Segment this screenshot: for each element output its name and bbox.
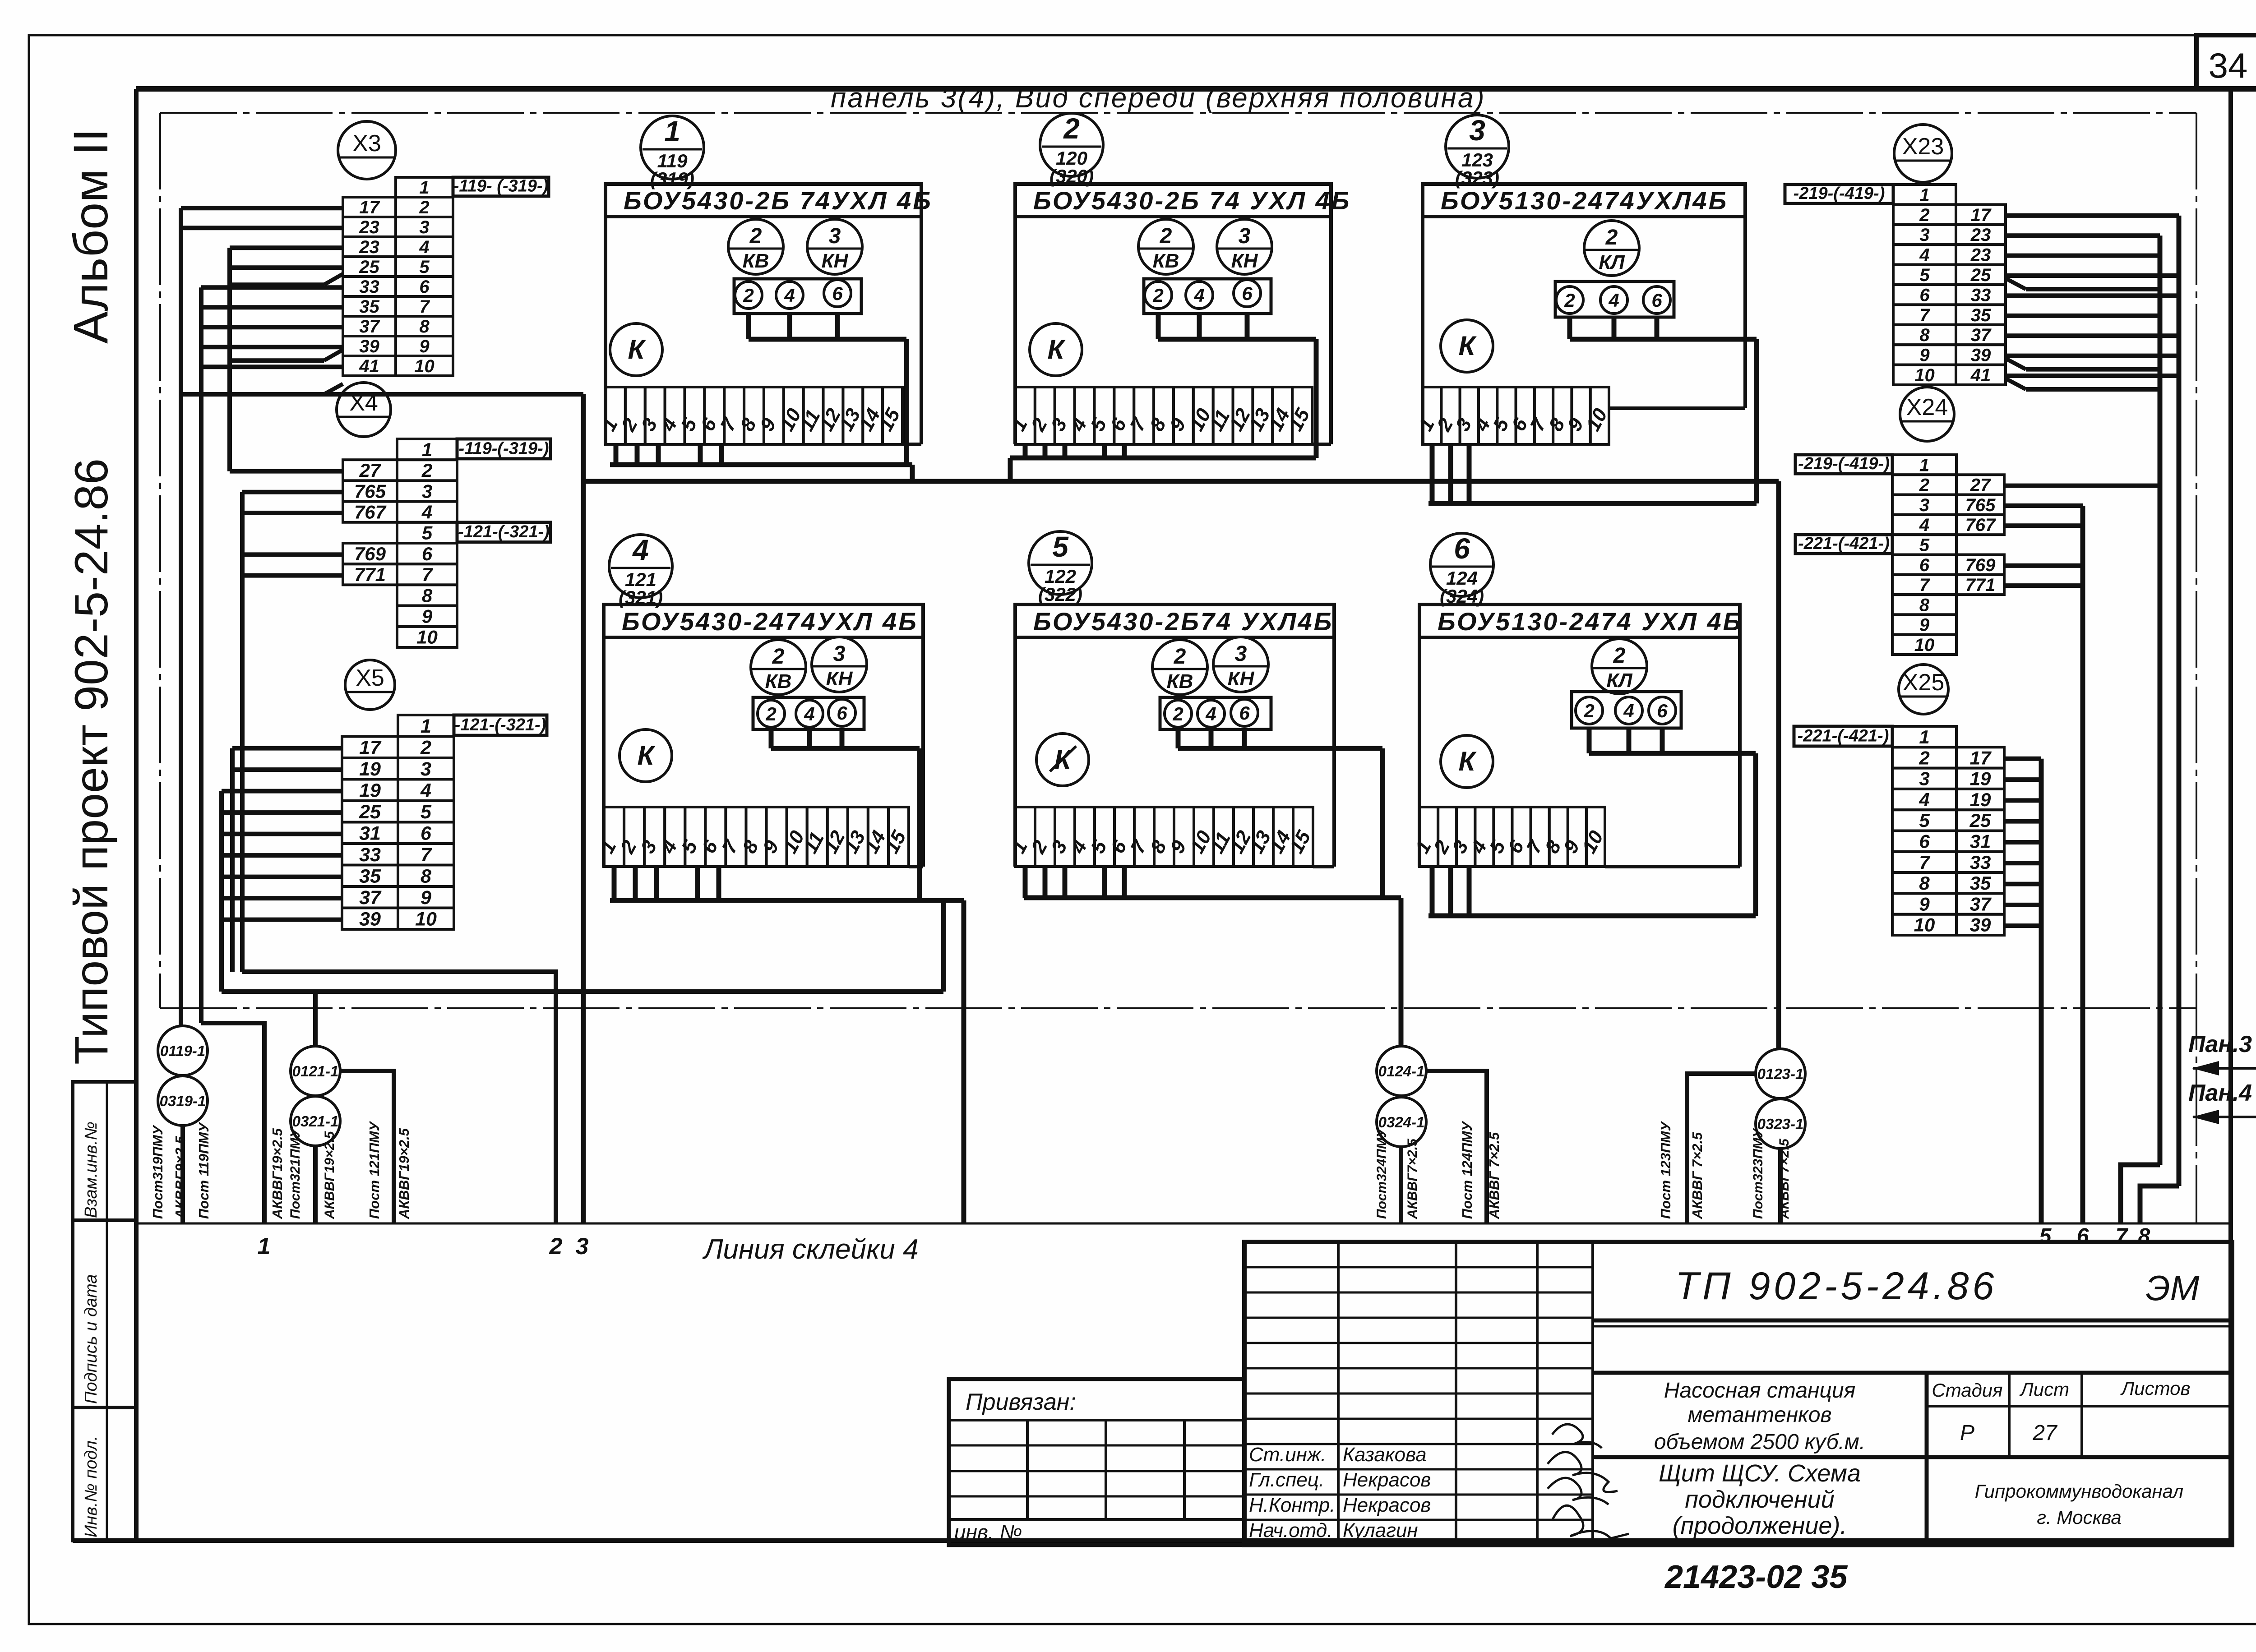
cable labels group 2: [288, 1121, 412, 1219]
terminal group 2-4-6 of block 5: [1160, 697, 1271, 729]
svg-text:2: 2: [1152, 285, 1163, 306]
svg-text:X24: X24: [1906, 394, 1948, 420]
svg-text:6: 6: [1919, 831, 1930, 852]
svg-text:767: 767: [354, 501, 387, 522]
svg-text:АКВВГ19×2.5: АКВВГ19×2.5: [322, 1131, 337, 1219]
svg-text:8: 8: [1919, 872, 1930, 894]
svg-text:(продолжение).: (продолжение).: [1673, 1512, 1847, 1539]
position circle 6: [1430, 532, 1493, 607]
contact circle 3/КН of block 4: [812, 637, 867, 692]
terminal block X4 circle: [337, 383, 391, 437]
svg-text:инв. №: инв. №: [954, 1520, 1022, 1544]
svg-text:-119- (-319-): -119- (-319-): [453, 177, 548, 196]
svg-text:4: 4: [1919, 789, 1929, 810]
svg-text:Некрасов: Некрасов: [1343, 1469, 1431, 1491]
svg-text:767: 767: [1965, 515, 1996, 535]
svg-text:33: 33: [1970, 852, 1991, 873]
relay block 6: БОУ5130-2474 УХЛ 4Б: [1419, 605, 1743, 867]
svg-text:21423-02 35: 21423-02 35: [1664, 1559, 1848, 1595]
svg-text:-221-(-421-): -221-(-421-): [1798, 534, 1890, 553]
svg-text:31: 31: [359, 822, 381, 844]
svg-text:7: 7: [422, 564, 433, 585]
svg-text:6: 6: [1239, 702, 1250, 724]
cable labels group 4: [1658, 1121, 1792, 1219]
svg-text:Пост321ПМУ: Пост321ПМУ: [288, 1127, 303, 1219]
svg-text:1: 1: [419, 178, 429, 198]
svg-text:4: 4: [804, 703, 814, 724]
svg-text:Пост324ПМУ: Пост324ПМУ: [1374, 1127, 1389, 1219]
contact circle 3/КН of block 1: [807, 219, 862, 274]
svg-text:Щит ЩСУ. Схема: Щит ЩСУ. Схема: [1659, 1460, 1861, 1487]
cable line through 0121-1 / 0321-1: [315, 1071, 394, 1223]
svg-text:5: 5: [421, 801, 432, 823]
wires: block2 collector bus and step at 2239: [1010, 458, 1316, 481]
svg-text:АКВВГ7×2.5: АКВВГ7×2.5: [1777, 1138, 1792, 1219]
dash-dot panel outline: [160, 113, 2196, 1223]
svg-text:17: 17: [359, 737, 382, 758]
svg-text:10: 10: [416, 627, 438, 648]
svg-text:2: 2: [772, 645, 785, 669]
svg-text:35: 35: [359, 865, 381, 887]
svg-text:3: 3: [1235, 642, 1247, 666]
privyazan box: [949, 1379, 1244, 1545]
panel reference Пан.3: [2188, 1031, 2256, 1075]
svg-text:КЛ: КЛ: [1606, 669, 1632, 692]
relay contactor K of block 2: [1030, 323, 1082, 376]
svg-text:АКВВГ 7×2.5: АКВВГ 7×2.5: [1689, 1132, 1705, 1219]
svg-text:2: 2: [1613, 644, 1626, 668]
svg-text:1: 1: [1919, 455, 1929, 475]
signature rows: [1249, 1444, 1431, 1541]
svg-text:КН: КН: [1228, 668, 1255, 690]
terminal block X25 table: [1794, 726, 2004, 936]
svg-text:АКВВГ 7×2.5: АКВВГ 7×2.5: [1486, 1132, 1502, 1219]
wire bundle: X23 rows to right verticals: [2006, 216, 2179, 1223]
contact circle 2/КЛ of block 3: [1584, 221, 1639, 276]
svg-text:3: 3: [419, 217, 429, 237]
svg-text:-121-(-321-): -121-(-321-): [458, 522, 550, 541]
contact circle 3/КН of block 5: [1213, 637, 1268, 692]
svg-text:4: 4: [1205, 703, 1216, 724]
svg-text:2: 2: [1564, 290, 1575, 311]
contact circle 2/КВ of block 4: [751, 640, 806, 695]
svg-text:8: 8: [2138, 1224, 2150, 1248]
relay block 2: БОУ5430-2Б 74 УХЛ 4Б: [1015, 184, 1351, 444]
svg-text:3: 3: [1919, 768, 1929, 789]
svg-text:34: 34: [2209, 46, 2248, 85]
svg-text:К: К: [628, 334, 647, 365]
svg-text:9: 9: [421, 887, 431, 909]
wires: X24 rows: [2004, 486, 2160, 1223]
svg-text:4: 4: [632, 534, 649, 566]
svg-text:35: 35: [1971, 305, 1991, 325]
svg-text:4: 4: [419, 237, 429, 257]
svg-text:33: 33: [359, 277, 379, 297]
svg-text:БОУ5430-2Б 74 УХЛ 4Б: БОУ5430-2Б 74 УХЛ 4Б: [1033, 186, 1351, 215]
svg-text:9: 9: [1919, 893, 1930, 914]
svg-text:Пост 121ПМУ: Пост 121ПМУ: [366, 1121, 382, 1219]
svg-text:41: 41: [359, 356, 379, 376]
svg-text:(322): (322): [1038, 584, 1082, 605]
svg-text:5: 5: [1919, 810, 1930, 831]
svg-text:6: 6: [1454, 532, 1470, 565]
svg-text:КВ: КВ: [1167, 670, 1193, 692]
svg-text:37: 37: [1971, 325, 1992, 345]
terminal block X24 table: [1795, 454, 2004, 655]
svg-text:X3: X3: [352, 130, 381, 157]
svg-text:765: 765: [1965, 495, 1996, 515]
svg-text:19: 19: [359, 758, 381, 780]
svg-text:X25: X25: [1903, 669, 1945, 696]
wires: block3 terminal group down to collector: [1570, 317, 1757, 503]
svg-text:Листов: Листов: [2120, 1378, 2191, 1399]
svg-text:5: 5: [1919, 265, 1930, 285]
svg-text:Взам.инв.№: Взам.инв.№: [82, 1121, 101, 1218]
relay block 4: БОУ5430-2474УХЛ 4Б: [604, 605, 923, 867]
svg-text:10: 10: [1914, 365, 1935, 385]
svg-text:25: 25: [1970, 265, 1991, 285]
svg-text:27: 27: [2032, 1421, 2058, 1445]
svg-text:Кулагин: Кулагин: [1343, 1519, 1418, 1541]
terminal block X4 table: [343, 439, 550, 648]
terminal block X23 circle: [1894, 125, 1952, 182]
svg-text:25: 25: [359, 257, 379, 277]
svg-text:0121-1: 0121-1: [292, 1063, 339, 1080]
wires: X25 rows to v4524 down to splice tick 5: [2004, 759, 2041, 1223]
svg-text:Насосная станция: Насосная станция: [1664, 1379, 1855, 1403]
svg-text:-219-(-419-): -219-(-419-): [1794, 184, 1885, 203]
svg-text:3: 3: [1469, 114, 1485, 147]
svg-text:39: 39: [1970, 914, 1991, 936]
cable circles 0124-1 and 0324-1: [1377, 1046, 1426, 1147]
cable labels group 3: [1374, 1121, 1502, 1219]
svg-text:ЭМ: ЭМ: [2145, 1268, 2199, 1308]
svg-text:7: 7: [2116, 1224, 2129, 1248]
svg-text:6: 6: [1919, 285, 1930, 305]
position circle 3: [1446, 114, 1509, 189]
svg-text:АКВВГ19×2.5: АКВВГ19×2.5: [269, 1128, 285, 1219]
svg-text:37: 37: [359, 887, 382, 909]
terminal block X3 table: [343, 177, 549, 376]
svg-text:1: 1: [422, 439, 432, 460]
svg-text:6: 6: [837, 702, 847, 724]
position circle 4: [609, 534, 672, 608]
svg-text:Стадия: Стадия: [1932, 1380, 2002, 1401]
wires: block2 strip stubs: [1025, 444, 1124, 458]
svg-text:17: 17: [1971, 205, 1992, 225]
svg-text:2: 2: [549, 1233, 563, 1260]
sheet number box 34: [2196, 35, 2256, 89]
svg-text:КВ: КВ: [765, 670, 792, 692]
svg-text:6: 6: [421, 822, 432, 844]
terminal group 2-4-6 of block 3: [1555, 281, 1674, 317]
cable circles 0123-1 and 0323-1: [1756, 1049, 1805, 1149]
svg-text:X23: X23: [1902, 134, 1944, 160]
svg-text:-221-(-421-): -221-(-421-): [1798, 726, 1889, 745]
svg-text:КН: КН: [822, 250, 849, 272]
svg-text:объемом 2500 куб.м.: объемом 2500 куб.м.: [1654, 1430, 1865, 1454]
signature scribbles: [1548, 1424, 1629, 1538]
svg-text:765: 765: [354, 480, 386, 502]
svg-text:3: 3: [829, 224, 841, 248]
svg-text:-119-(-319-): -119-(-319-): [459, 439, 549, 458]
svg-text:33: 33: [1971, 285, 1991, 305]
cable circles 0121-1 and 0321-1: [291, 1046, 340, 1146]
svg-text:4: 4: [421, 501, 432, 522]
svg-text:Ст.инж.: Ст.инж.: [1249, 1444, 1326, 1466]
terminal block X3 circle: [338, 121, 396, 179]
svg-text:АКВВГ9×2.5: АКВВГ9×2.5: [172, 1136, 188, 1219]
svg-text:9: 9: [1919, 615, 1930, 635]
svg-text:39: 39: [1971, 346, 1991, 365]
terminal strip 1..10 of block 6: [1411, 807, 1608, 867]
wire bundle: X3 rows 6-10 to v446 and cable elbow to splice tick 1: [201, 287, 343, 1223]
svg-text:7: 7: [419, 297, 430, 317]
svg-text:8: 8: [1919, 595, 1930, 615]
wires: block6 terminal group down to collector: [1589, 728, 1756, 916]
svg-text:-219-(-419-): -219-(-419-): [1798, 454, 1890, 473]
svg-text:23: 23: [359, 217, 379, 237]
svg-text:Линия склейки 4: Линия склейки 4: [702, 1234, 919, 1265]
svg-text:0321-1: 0321-1: [292, 1113, 339, 1130]
relay block 1: БОУ5430-2Б 74УХЛ 4Б: [606, 184, 933, 444]
svg-text:панель 3(4), Вид спереди (в: панель 3(4), Вид спереди (верхняя полови…: [831, 83, 1486, 114]
left attribute boxes: [73, 1082, 136, 1541]
svg-text:3: 3: [1239, 224, 1251, 248]
svg-text:Подпись и дата: Подпись и дата: [82, 1274, 101, 1404]
svg-text:6: 6: [1919, 555, 1930, 575]
splice line (линия склейки): [136, 1223, 2231, 1225]
svg-text:23: 23: [1970, 245, 1991, 265]
wires: block1 terminal group 2-4-6 down to bus and riser v2009: [749, 314, 906, 465]
svg-text:5: 5: [419, 257, 430, 277]
terminal block X24 circle: [1900, 387, 1954, 441]
wires: block2 terminal group down to collector: [1158, 314, 1316, 458]
svg-text:0123-1: 0123-1: [1757, 1066, 1804, 1082]
svg-text:Казакова: Казакова: [1343, 1444, 1427, 1466]
terminal block X23 table: [1785, 184, 2006, 385]
svg-text:37: 37: [1970, 893, 1992, 914]
svg-text:К: К: [1459, 746, 1477, 776]
svg-text:41: 41: [1970, 365, 1991, 385]
svg-text:31: 31: [1970, 831, 1991, 852]
contact circle 2/КЛ of block 6: [1592, 639, 1647, 694]
svg-text:2: 2: [765, 703, 776, 724]
svg-text:6: 6: [832, 283, 843, 304]
wires: X5 rows 4-10 to v491, bus H2 to block4 riser: [222, 791, 943, 1046]
svg-text:БОУ5430-2Б74 УХЛ4Б: БОУ5430-2Б74 УХЛ4Б: [1033, 607, 1333, 636]
svg-text:6: 6: [419, 277, 430, 297]
svg-text:0124-1: 0124-1: [1378, 1063, 1425, 1080]
relay contactor K of block 5: [1036, 734, 1089, 786]
svg-text:2: 2: [1174, 645, 1186, 669]
svg-text:8: 8: [1919, 325, 1930, 345]
svg-text:10: 10: [1914, 914, 1935, 936]
svg-text:2: 2: [749, 224, 762, 248]
svg-text:3: 3: [833, 642, 846, 666]
cable line through 0124-1 / 0324-1: [1401, 1071, 1487, 1223]
svg-text:метантенков: метантенков: [1687, 1403, 1831, 1427]
svg-text:г. Москва: г. Москва: [2037, 1507, 2122, 1528]
svg-text:Пост323ПМУ: Пост323ПМУ: [1751, 1127, 1766, 1219]
contact circle 2/КВ of block 5: [1152, 640, 1207, 695]
svg-text:4: 4: [1193, 285, 1204, 306]
terminal group 2-4-6 of block 6: [1572, 692, 1681, 728]
terminal strip 1..15 of block 5: [1007, 807, 1315, 867]
svg-text:Пост 124ПМУ: Пост 124ПМУ: [1459, 1121, 1475, 1219]
position circle 2: [1040, 112, 1103, 187]
svg-text:9: 9: [419, 337, 430, 356]
svg-text:1: 1: [1919, 185, 1929, 205]
wires: block6 strip stubs and collector: [1428, 867, 1756, 916]
terminal strip 1..15 of block 2: [1007, 387, 1314, 444]
wire jogs X3 rows 5,9: [230, 274, 343, 360]
svg-text:Пан.4: Пан.4: [2188, 1080, 2252, 1106]
svg-text:33: 33: [359, 844, 381, 866]
svg-text:КЛ: КЛ: [1599, 251, 1625, 273]
terminal block X5 table: [342, 715, 547, 930]
svg-text:БОУ5430-2Б 74УХЛ 4Б: БОУ5430-2Б 74УХЛ 4Б: [624, 186, 933, 215]
svg-text:2: 2: [743, 285, 754, 306]
wires: X5 rows 2,3 to v515: [232, 748, 342, 972]
svg-text:2: 2: [421, 460, 432, 481]
svg-text:17: 17: [1970, 747, 1992, 768]
svg-text:6: 6: [422, 543, 433, 564]
svg-text:-121-(-321-): -121-(-321-): [455, 715, 546, 734]
wires: block4 strip stubs, collector, risers to H2 and splice: [610, 867, 964, 1223]
svg-text:3: 3: [576, 1233, 589, 1260]
svg-text:10: 10: [1914, 635, 1935, 655]
svg-text:35: 35: [359, 297, 379, 317]
svg-text:6: 6: [2077, 1224, 2089, 1248]
svg-text:Типовой проект 902-5-24.86: Типовой проект 902-5-24.86: [65, 458, 118, 1065]
svg-text:БОУ5130-2474 УХЛ 4Б: БОУ5130-2474 УХЛ 4Б: [1438, 607, 1743, 636]
svg-text:4: 4: [420, 780, 431, 801]
wires: block5 strip stubs, collector to cable 0124 riser: [1024, 867, 1401, 1046]
terminal strip 1..15 of block 1: [597, 387, 905, 444]
svg-text:2: 2: [1605, 226, 1618, 249]
wire bundle: X3 rows 2,3 to left vertical v401 (cable 0119): [181, 208, 343, 1026]
svg-text:7: 7: [1919, 575, 1930, 595]
svg-text:6: 6: [1242, 283, 1253, 304]
svg-text:Пан.3: Пан.3: [2188, 1031, 2252, 1057]
terminal group 2-4-6 of block 2: [1144, 279, 1271, 314]
svg-text:Гипрокоммунводоканал: Гипрокоммунводоканал: [1975, 1481, 2183, 1502]
wires: block4 terminal group down to riser: [771, 729, 920, 900]
svg-text:подключений: подключений: [1685, 1486, 1835, 1513]
svg-text:Инв.№ подл.: Инв.№ подл.: [82, 1436, 101, 1537]
svg-text:8: 8: [419, 317, 430, 337]
title block texts: [1654, 1264, 2200, 1539]
svg-text:5: 5: [1919, 535, 1930, 555]
svg-text:Альбом II: Альбом II: [63, 128, 118, 344]
svg-text:2: 2: [1919, 747, 1929, 768]
svg-text:7: 7: [1919, 305, 1930, 325]
svg-text:АКВВГ19×2.5: АКВВГ19×2.5: [396, 1128, 412, 1219]
svg-text:5: 5: [422, 522, 433, 544]
svg-text:4: 4: [784, 285, 795, 306]
svg-text:1: 1: [1919, 726, 1929, 748]
svg-text:9: 9: [422, 605, 433, 627]
svg-text:8: 8: [422, 585, 433, 606]
svg-text:0324-1: 0324-1: [1378, 1114, 1425, 1131]
svg-text:Пост 119ПМУ: Пост 119ПМУ: [196, 1122, 212, 1219]
svg-text:4: 4: [1623, 700, 1634, 721]
position circle 5: [1029, 531, 1092, 605]
svg-text:23: 23: [359, 237, 379, 257]
svg-text:Привязан:: Привязан:: [966, 1389, 1076, 1415]
svg-text:4: 4: [1608, 290, 1619, 311]
svg-text:Нач.отд.: Нач.отд.: [1249, 1519, 1332, 1541]
svg-text:27: 27: [359, 460, 381, 481]
svg-text:769: 769: [1965, 555, 1996, 575]
svg-text:1: 1: [421, 715, 431, 737]
svg-text:23: 23: [1970, 225, 1991, 245]
wires: riser v1293 from long wire down to splice tick 3: [581, 394, 586, 1223]
svg-text:27: 27: [1970, 475, 1991, 495]
svg-text:3: 3: [421, 758, 431, 780]
wires: X4 rows 3,4,6,7 to v537 down to bus H1 and splice tick 2: [242, 492, 556, 1223]
svg-text:2: 2: [1160, 224, 1172, 248]
svg-text:8: 8: [421, 865, 431, 887]
svg-text:ТП 902-5-24.86: ТП 902-5-24.86: [1675, 1264, 1998, 1308]
svg-text:БОУ5430-2474УХЛ 4Б: БОУ5430-2474УХЛ 4Б: [622, 607, 918, 636]
svg-text:Пост319ПМУ: Пост319ПМУ: [150, 1125, 166, 1219]
terminal block X25 circle: [1899, 664, 1948, 714]
svg-text:КН: КН: [1231, 250, 1258, 272]
svg-text:К: К: [1459, 331, 1477, 361]
svg-text:2: 2: [1583, 700, 1594, 721]
svg-text:3: 3: [1919, 225, 1929, 245]
long wire at y=874 from v401 to riser v1293 with jog into X3 row 10: [181, 384, 583, 394]
wires: inter-block collector bus from v1293 to v3942: [583, 481, 1779, 1049]
svg-text:Н.Контр.: Н.Контр.: [1249, 1494, 1335, 1516]
svg-text:1: 1: [664, 115, 680, 148]
svg-text:771: 771: [354, 564, 386, 585]
wires: block3 strip stubs and collector: [1428, 444, 1757, 503]
svg-text:7: 7: [1919, 852, 1930, 873]
svg-text:БОУ5130-2474УХЛ4Б: БОУ5130-2474УХЛ4Б: [1441, 186, 1728, 215]
relay contactor K of block 1: [610, 323, 662, 376]
svg-text:19: 19: [359, 780, 381, 801]
cable line through 0123-1 / 0323-1: [1687, 1074, 1780, 1223]
svg-text:Лист: Лист: [2019, 1379, 2069, 1400]
svg-text:К: К: [638, 740, 656, 771]
svg-text:7: 7: [421, 844, 432, 866]
svg-text:Пост 123ПМУ: Пост 123ПМУ: [1658, 1121, 1674, 1219]
svg-text:2: 2: [1919, 475, 1929, 495]
svg-text:17: 17: [359, 198, 380, 217]
terminal group 2-4-6 of block 4: [753, 697, 864, 729]
svg-text:2: 2: [420, 737, 431, 758]
svg-text:2: 2: [1172, 703, 1183, 724]
contact circle 3/КН of block 2: [1217, 219, 1272, 274]
svg-text:771: 771: [1965, 575, 1996, 595]
svg-text:25: 25: [359, 801, 381, 823]
wires: block1 strip stubs and collector bus: [610, 444, 912, 481]
svg-text:39: 39: [359, 908, 381, 930]
svg-text:Гл.спец.: Гл.спец.: [1249, 1469, 1324, 1491]
title block: [1244, 1242, 2232, 1545]
svg-text:19: 19: [1970, 768, 1991, 789]
terminal block X5 circle: [345, 660, 395, 710]
relay contactor K of block 6: [1441, 735, 1493, 788]
svg-text:Р: Р: [1960, 1421, 1974, 1445]
svg-text:3: 3: [1919, 495, 1929, 515]
svg-text:X5: X5: [356, 665, 384, 691]
contact circle 2/КВ of block 2: [1138, 219, 1193, 274]
relay block 5: БОУ5430-2Б74 УХЛ4Б: [1015, 605, 1334, 867]
